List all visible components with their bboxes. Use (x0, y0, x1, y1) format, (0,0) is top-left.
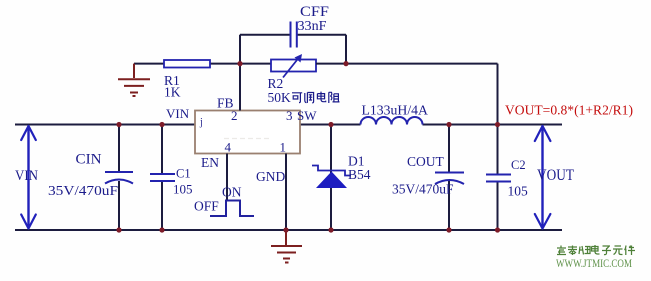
label 可调电阻 (drawn glyphs) (292, 92, 340, 103)
capacitor C1 (161, 125, 163, 174)
svg-text:EN: EN (201, 155, 219, 170)
svg-text:50K: 50K (268, 90, 292, 105)
junction CIN top (116, 122, 121, 127)
diode D1 schottky (330, 125, 332, 231)
svg-text:OFF: OFF (194, 199, 219, 214)
op-amp U1 regulator body (195, 111, 300, 154)
svg-text:COUT: COUT (407, 154, 445, 169)
svg-text:R2: R2 (268, 76, 284, 91)
wire EN pin (226, 154, 228, 201)
wire feedback to output (316, 63, 498, 65)
svg-text:4: 4 (225, 140, 232, 155)
ground center (271, 230, 302, 263)
wire top rail left segment (15, 124, 195, 126)
svg-text:35V/470uF: 35V/470uF (392, 182, 454, 197)
wire inductor to right end (423, 124, 563, 126)
junction C2 bottom (495, 227, 500, 232)
capacitor COUT (448, 125, 450, 172)
junction node FB (237, 61, 242, 66)
svg-text:1K: 1K (164, 85, 181, 100)
svg-text:FB: FB (217, 96, 234, 111)
junction C1 bottom (159, 227, 164, 232)
junction R2/CFF right (343, 61, 348, 66)
svg-text:WWW.JTMIC.COM: WWW.JTMIC.COM (556, 256, 632, 270)
svg-text:C2: C2 (511, 158, 526, 172)
svg-text:VIN: VIN (166, 106, 190, 121)
junction C1 top (159, 122, 164, 127)
resistor R1 (134, 63, 164, 65)
svg-text:j: j (199, 117, 203, 128)
wire bottom rail (15, 229, 562, 231)
watermark 嘉泰姆电子元件 (drawn glyphs) (557, 245, 635, 255)
svg-text:SW: SW (297, 108, 317, 123)
junction SW/D1 (328, 122, 333, 127)
junction COUT top (446, 122, 451, 127)
姆 (579, 246, 590, 255)
EN pulse waveform (210, 201, 254, 217)
svg-text:105: 105 (173, 182, 193, 197)
svg-text:L133uH/4A: L133uH/4A (362, 103, 429, 118)
junction C2/VOUT (495, 122, 500, 127)
junction COUT bottom (446, 227, 451, 232)
wire SW to inductor (300, 124, 361, 126)
svg-text:1: 1 (280, 140, 287, 155)
调 (305, 93, 314, 103)
inductor L1 (361, 117, 423, 125)
svg-text:35V/470uF: 35V/470uF (48, 183, 119, 198)
junction GND pin bottom (283, 227, 288, 232)
电 (317, 92, 325, 102)
node VIN input arrow (21, 126, 36, 229)
svg-text:33nF: 33nF (298, 18, 328, 33)
junction D1 bottom (328, 227, 333, 232)
node VOUT output arrow (535, 126, 551, 229)
svg-text:ON: ON (222, 185, 242, 200)
svg-text:3: 3 (286, 108, 293, 123)
件 (625, 246, 636, 256)
svg-text:C1: C1 (176, 167, 191, 181)
svg-text:CIN: CIN (76, 152, 102, 168)
svg-text:VIN: VIN (15, 168, 38, 184)
capacitor CFF (240, 34, 290, 36)
svg-text:GND: GND (256, 169, 285, 184)
svg-text:VOUT=0.8*(1+R2/R1): VOUT=0.8*(1+R2/R1) (505, 104, 633, 119)
svg-text:VOUT: VOUT (537, 167, 574, 184)
ground left (118, 64, 150, 96)
阻 (329, 92, 340, 103)
capacitor CIN (118, 125, 120, 172)
capacitor C2 (497, 125, 499, 175)
wire GND pin (285, 154, 287, 231)
元 (613, 246, 623, 255)
resistor R2 potentiometer (271, 60, 316, 72)
可 (292, 93, 302, 103)
wire FB pin (239, 64, 241, 111)
电 (592, 245, 600, 254)
junction CIN bottom (116, 227, 121, 232)
泰 (568, 246, 577, 256)
svg-text:105: 105 (508, 184, 529, 199)
svg-text:B54: B54 (348, 167, 371, 182)
子 (602, 246, 611, 255)
嘉 (557, 246, 566, 255)
